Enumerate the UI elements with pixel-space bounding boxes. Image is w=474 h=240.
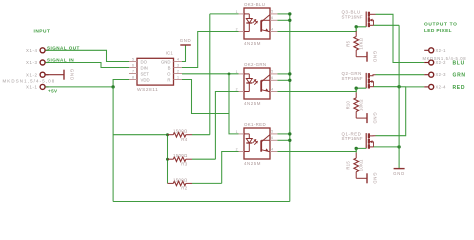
svg-text:R4: R4 — [181, 137, 187, 142]
wire OK2 collector to +5V rail — [278, 73, 290, 75]
svg-text:GND: GND — [372, 173, 377, 185]
svg-text:R5: R5 — [345, 40, 350, 46]
svg-text:4N25M: 4N25M — [244, 41, 261, 46]
svg-text:1: 1 — [236, 10, 238, 14]
svg-text:1500Ω: 1500Ω — [173, 129, 188, 134]
svg-text:R3: R3 — [181, 161, 187, 166]
svg-text:1500Ω: 1500Ω — [173, 153, 188, 158]
svg-text:1: 1 — [177, 75, 179, 79]
wire Q1 drain to X2-4 RED — [376, 87, 425, 136]
resistor R15 10K (gate pulldown) — [345, 148, 363, 178]
svg-text:GND: GND — [393, 171, 405, 176]
label Q2-GRN — [342, 71, 363, 81]
svg-text:OUTPUT TO: OUTPUT TO — [424, 22, 457, 28]
wire net B (IC1 to OK3 cathode) — [182, 32, 239, 68]
node rail junction OK2 collector — [288, 72, 291, 75]
wire OK2 cathode to R3 — [215, 92, 238, 160]
svg-text:1500Ω: 1500Ω — [173, 177, 188, 182]
svg-text:X1-4: X1-4 — [26, 48, 37, 53]
wire branch to OK1 anode — [229, 74, 239, 134]
svg-text:6: 6 — [271, 76, 273, 80]
svg-text:R10: R10 — [345, 100, 350, 109]
label IC1 — [166, 51, 174, 56]
wire SIGNAL OUT (X1-4 to IC1 DO) — [46, 50, 129, 61]
svg-text:SET: SET — [141, 71, 150, 76]
value label MKDSN1,5/4-5,08 (X1) — [3, 79, 56, 84]
node common at R3 — [166, 158, 169, 161]
svg-text:VDD: VDD — [141, 77, 150, 82]
transistor Q2-GRN STP16NF06 — [366, 73, 375, 89]
svg-text:7: 7 — [132, 69, 134, 73]
svg-text:4: 4 — [271, 87, 273, 91]
IC1 pin stubs and pin names — [129, 59, 182, 82]
wire SIGNAL IN (X1-3 to IC1 DIN) — [46, 63, 129, 68]
resistor R3 1500 — [168, 153, 216, 166]
svg-text:STP16NF: STP16NF — [342, 136, 363, 141]
svg-text:SIGNAL OUT: SIGNAL OUT — [47, 45, 80, 50]
node Q1 gate junction — [355, 147, 358, 150]
wire +5V bottom run — [113, 201, 290, 203]
connector pin X1-4 — [26, 48, 49, 53]
wire Q2 drain to X2-3 GRN — [376, 74, 425, 76]
ground (R15) — [367, 173, 377, 185]
node common at R4 — [166, 133, 169, 136]
svg-text:5: 5 — [271, 130, 273, 134]
optocoupler OK2-GRN 4N25M — [236, 62, 278, 106]
svg-text:2: 2 — [236, 88, 238, 92]
svg-text:5: 5 — [271, 10, 273, 14]
svg-text:2: 2 — [236, 148, 238, 152]
svg-text:6: 6 — [271, 16, 273, 20]
node rail junction OK1 base — [288, 139, 291, 142]
svg-text:R: R — [167, 77, 170, 82]
svg-text:STP16NF: STP16NF — [342, 15, 363, 20]
node rail junction OK3 collector — [288, 12, 291, 15]
svg-text:GRN: GRN — [453, 73, 466, 79]
resistor R10 10K (gate pulldown) — [345, 88, 363, 118]
svg-text:1: 1 — [236, 70, 238, 74]
svg-text:1: 1 — [236, 130, 238, 134]
svg-text:X1-3: X1-3 — [26, 60, 37, 65]
wire +5V right rail (to optocoupler collectors) — [289, 14, 291, 202]
wire IC1 GND pin to ground — [182, 45, 186, 62]
svg-text:6: 6 — [132, 63, 134, 67]
svg-text:X1-1: X1-1 — [26, 85, 37, 90]
net label GRN — [453, 73, 466, 79]
node rail junction OK1 collector — [288, 132, 291, 135]
connector pin X2-2 — [424, 60, 446, 65]
connector pin X2-3 — [424, 72, 446, 77]
wire OK3 emitter to Q3 gate — [278, 27, 367, 32]
svg-text:OK1-RED: OK1-RED — [244, 122, 266, 127]
svg-text:X2-3: X2-3 — [436, 72, 447, 77]
svg-text:MKDSN1,5/4-5,08: MKDSN1,5/4-5,08 — [3, 79, 56, 84]
wire Q1 source to GND rail — [374, 146, 400, 148]
svg-text:2: 2 — [236, 28, 238, 32]
svg-text:R15: R15 — [345, 161, 350, 170]
node +5V junction at X1-1 branch — [111, 85, 114, 88]
svg-text:5: 5 — [132, 57, 134, 61]
svg-text:INPUT: INPUT — [34, 28, 51, 34]
connector pin X1-3 — [26, 60, 49, 65]
wire +5V vertical left rail — [112, 87, 114, 202]
label Q3-BLU — [342, 10, 363, 20]
wire OK3 base to +5V rail — [278, 19, 290, 21]
net label SIGNAL OUT — [47, 45, 80, 50]
wire Q3 source to GND rail — [374, 24, 400, 26]
ground (R10) — [367, 112, 377, 124]
wire OK2 base to +5V rail — [278, 79, 290, 81]
svg-text:GND: GND — [372, 112, 377, 124]
node GND rail junction Q2 source — [397, 85, 400, 88]
svg-text:B: B — [168, 65, 171, 70]
node GND rail junction Q1 source — [397, 145, 400, 148]
connector pin X1-2 — [26, 72, 49, 77]
wire OK1 collector to +5V rail — [278, 133, 290, 135]
wire Q2 source to GND rail — [374, 86, 406, 88]
svg-text:4: 4 — [271, 147, 273, 151]
svg-text:BLU: BLU — [453, 61, 465, 67]
svg-text:STP16NF: STP16NF — [342, 76, 363, 81]
svg-text:X2-1: X2-1 — [436, 48, 447, 53]
svg-text:3: 3 — [177, 63, 179, 67]
net label +5V — [48, 89, 58, 94]
svg-text:10KΩ: 10KΩ — [358, 159, 363, 171]
wire MOSFET source GND rail — [398, 25, 400, 168]
wire resistor common vertical — [167, 135, 169, 184]
svg-text:+5V: +5V — [48, 89, 58, 94]
ground (X1-2) — [64, 69, 74, 81]
wire X1-2 to GND — [46, 74, 64, 76]
svg-text:GND: GND — [161, 59, 171, 64]
ground (R5) — [367, 51, 377, 63]
connector pin X1-1 — [26, 84, 49, 89]
wire R5 to ground — [356, 56, 367, 58]
wire OK1 base to +5V rail — [278, 139, 290, 141]
wire OK1 emitter to Q1 gate — [278, 148, 367, 151]
svg-text:2: 2 — [177, 69, 179, 73]
svg-text:10KΩ: 10KΩ — [358, 38, 363, 50]
net label SIGNAL IN — [47, 58, 74, 63]
optocoupler OK3-BLU 4N25M — [236, 2, 278, 46]
transistor Q1-RED STP16NF06 — [366, 133, 375, 149]
wire net R (IC1 to OK3-anode rail) — [182, 80, 229, 114]
IC1 pin numbers — [132, 57, 179, 79]
node Q3 gate junction — [355, 25, 358, 28]
svg-text:8: 8 — [132, 75, 134, 79]
wire net O (IC1 to OK2 anode / OK1 anode) — [182, 73, 239, 75]
svg-text:WS2811: WS2811 — [137, 87, 158, 93]
svg-text:4N25M: 4N25M — [244, 101, 261, 106]
resistor R4 1500 — [168, 129, 210, 142]
svg-text:SIGNAL IN: SIGNAL IN — [47, 58, 74, 63]
resistor R2 1500 — [168, 177, 222, 190]
node rail junction OK2 base — [288, 79, 291, 82]
node Q2 gate junction — [355, 87, 358, 90]
wire +5V (X1-1 to IC1 VDD) — [46, 80, 129, 87]
optocoupler OK1-RED 4N25M — [236, 122, 278, 166]
svg-text:GND: GND — [372, 51, 377, 63]
transistor Q3-BLU STP16NF06 — [366, 12, 375, 28]
node junction O-net at x228.5 — [228, 73, 231, 76]
connector pin X2-1 — [424, 48, 446, 53]
svg-text:LED PIXEL: LED PIXEL — [424, 28, 452, 34]
wire Q3 drain to X2-2 BLU — [376, 14, 425, 62]
value WS2811 — [137, 87, 158, 93]
svg-text:4: 4 — [271, 27, 273, 31]
svg-text:OK3-BLU: OK3-BLU — [244, 2, 265, 7]
connector pin X2-4 — [424, 84, 446, 89]
svg-text:5: 5 — [271, 70, 273, 74]
ground (IC1) — [180, 38, 192, 45]
svg-text:GND: GND — [69, 69, 74, 81]
svg-text:OK2-GRN: OK2-GRN — [244, 62, 266, 67]
svg-text:4N25M: 4N25M — [244, 161, 261, 166]
net label BLU — [453, 61, 465, 67]
wire R15 to ground — [356, 177, 367, 179]
label Q1-RED — [342, 131, 363, 141]
svg-text:GND: GND — [180, 38, 192, 43]
wire +5V branch to resistor network — [113, 134, 167, 136]
net label RED — [453, 85, 466, 91]
svg-text:4: 4 — [177, 57, 179, 61]
wire OK2 emitter to Q2 gate — [278, 88, 367, 91]
wire R10 to ground — [356, 117, 367, 119]
svg-text:6: 6 — [271, 136, 273, 140]
svg-text:DO: DO — [141, 59, 148, 64]
svg-text:R2: R2 — [181, 186, 187, 191]
label INPUT — [34, 28, 51, 34]
svg-text:RED: RED — [453, 85, 466, 91]
label OUTPUT TO LED PIXEL — [424, 22, 457, 34]
op-amp U1 : IC1 WS2811 body — [137, 58, 174, 85]
node rail junction OK3 base — [288, 19, 291, 22]
svg-text:DIN: DIN — [141, 65, 148, 70]
wire OK3 anode vertical (to R4) — [210, 14, 239, 135]
svg-text:IC1: IC1 — [166, 51, 174, 56]
resistor R5 10K (gate pulldown) — [345, 27, 363, 57]
svg-text:X2-4: X2-4 — [436, 84, 447, 89]
value label MKDSN1,5/4-5,08 (X2) — [423, 56, 467, 61]
svg-text:X1-2: X1-2 — [26, 72, 37, 77]
ground (MOSFET sources) — [393, 169, 405, 177]
svg-text:10KΩ: 10KΩ — [358, 99, 363, 111]
wire OK3 collector to +5V rail — [278, 13, 290, 15]
wire OK1 cathode to R2 — [222, 152, 239, 184]
